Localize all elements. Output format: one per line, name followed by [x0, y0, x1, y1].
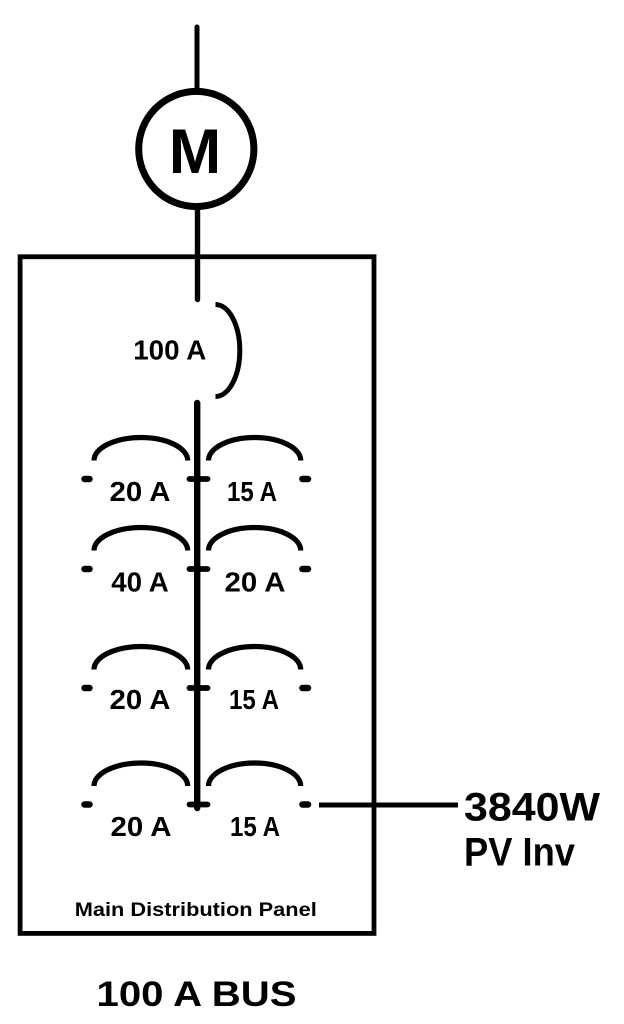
svg-text:PV Inv: PV Inv [464, 831, 576, 875]
svg-text:15 A: 15 A [229, 684, 279, 715]
svg-text:20 A: 20 A [110, 684, 171, 715]
svg-text:20 A: 20 A [111, 811, 172, 842]
svg-text:3840W: 3840W [464, 786, 600, 830]
svg-text:M: M [169, 117, 221, 187]
svg-text:20 A: 20 A [225, 567, 286, 598]
svg-text:40 A: 40 A [111, 567, 169, 598]
svg-text:100 A: 100 A [133, 335, 206, 366]
svg-text:15 A: 15 A [230, 811, 280, 842]
svg-text:Main Distribution Panel: Main Distribution Panel [75, 899, 317, 921]
svg-text:15 A: 15 A [227, 476, 277, 507]
svg-text:100 A BUS: 100 A BUS [97, 974, 297, 1014]
svg-text:20 A: 20 A [110, 476, 171, 507]
